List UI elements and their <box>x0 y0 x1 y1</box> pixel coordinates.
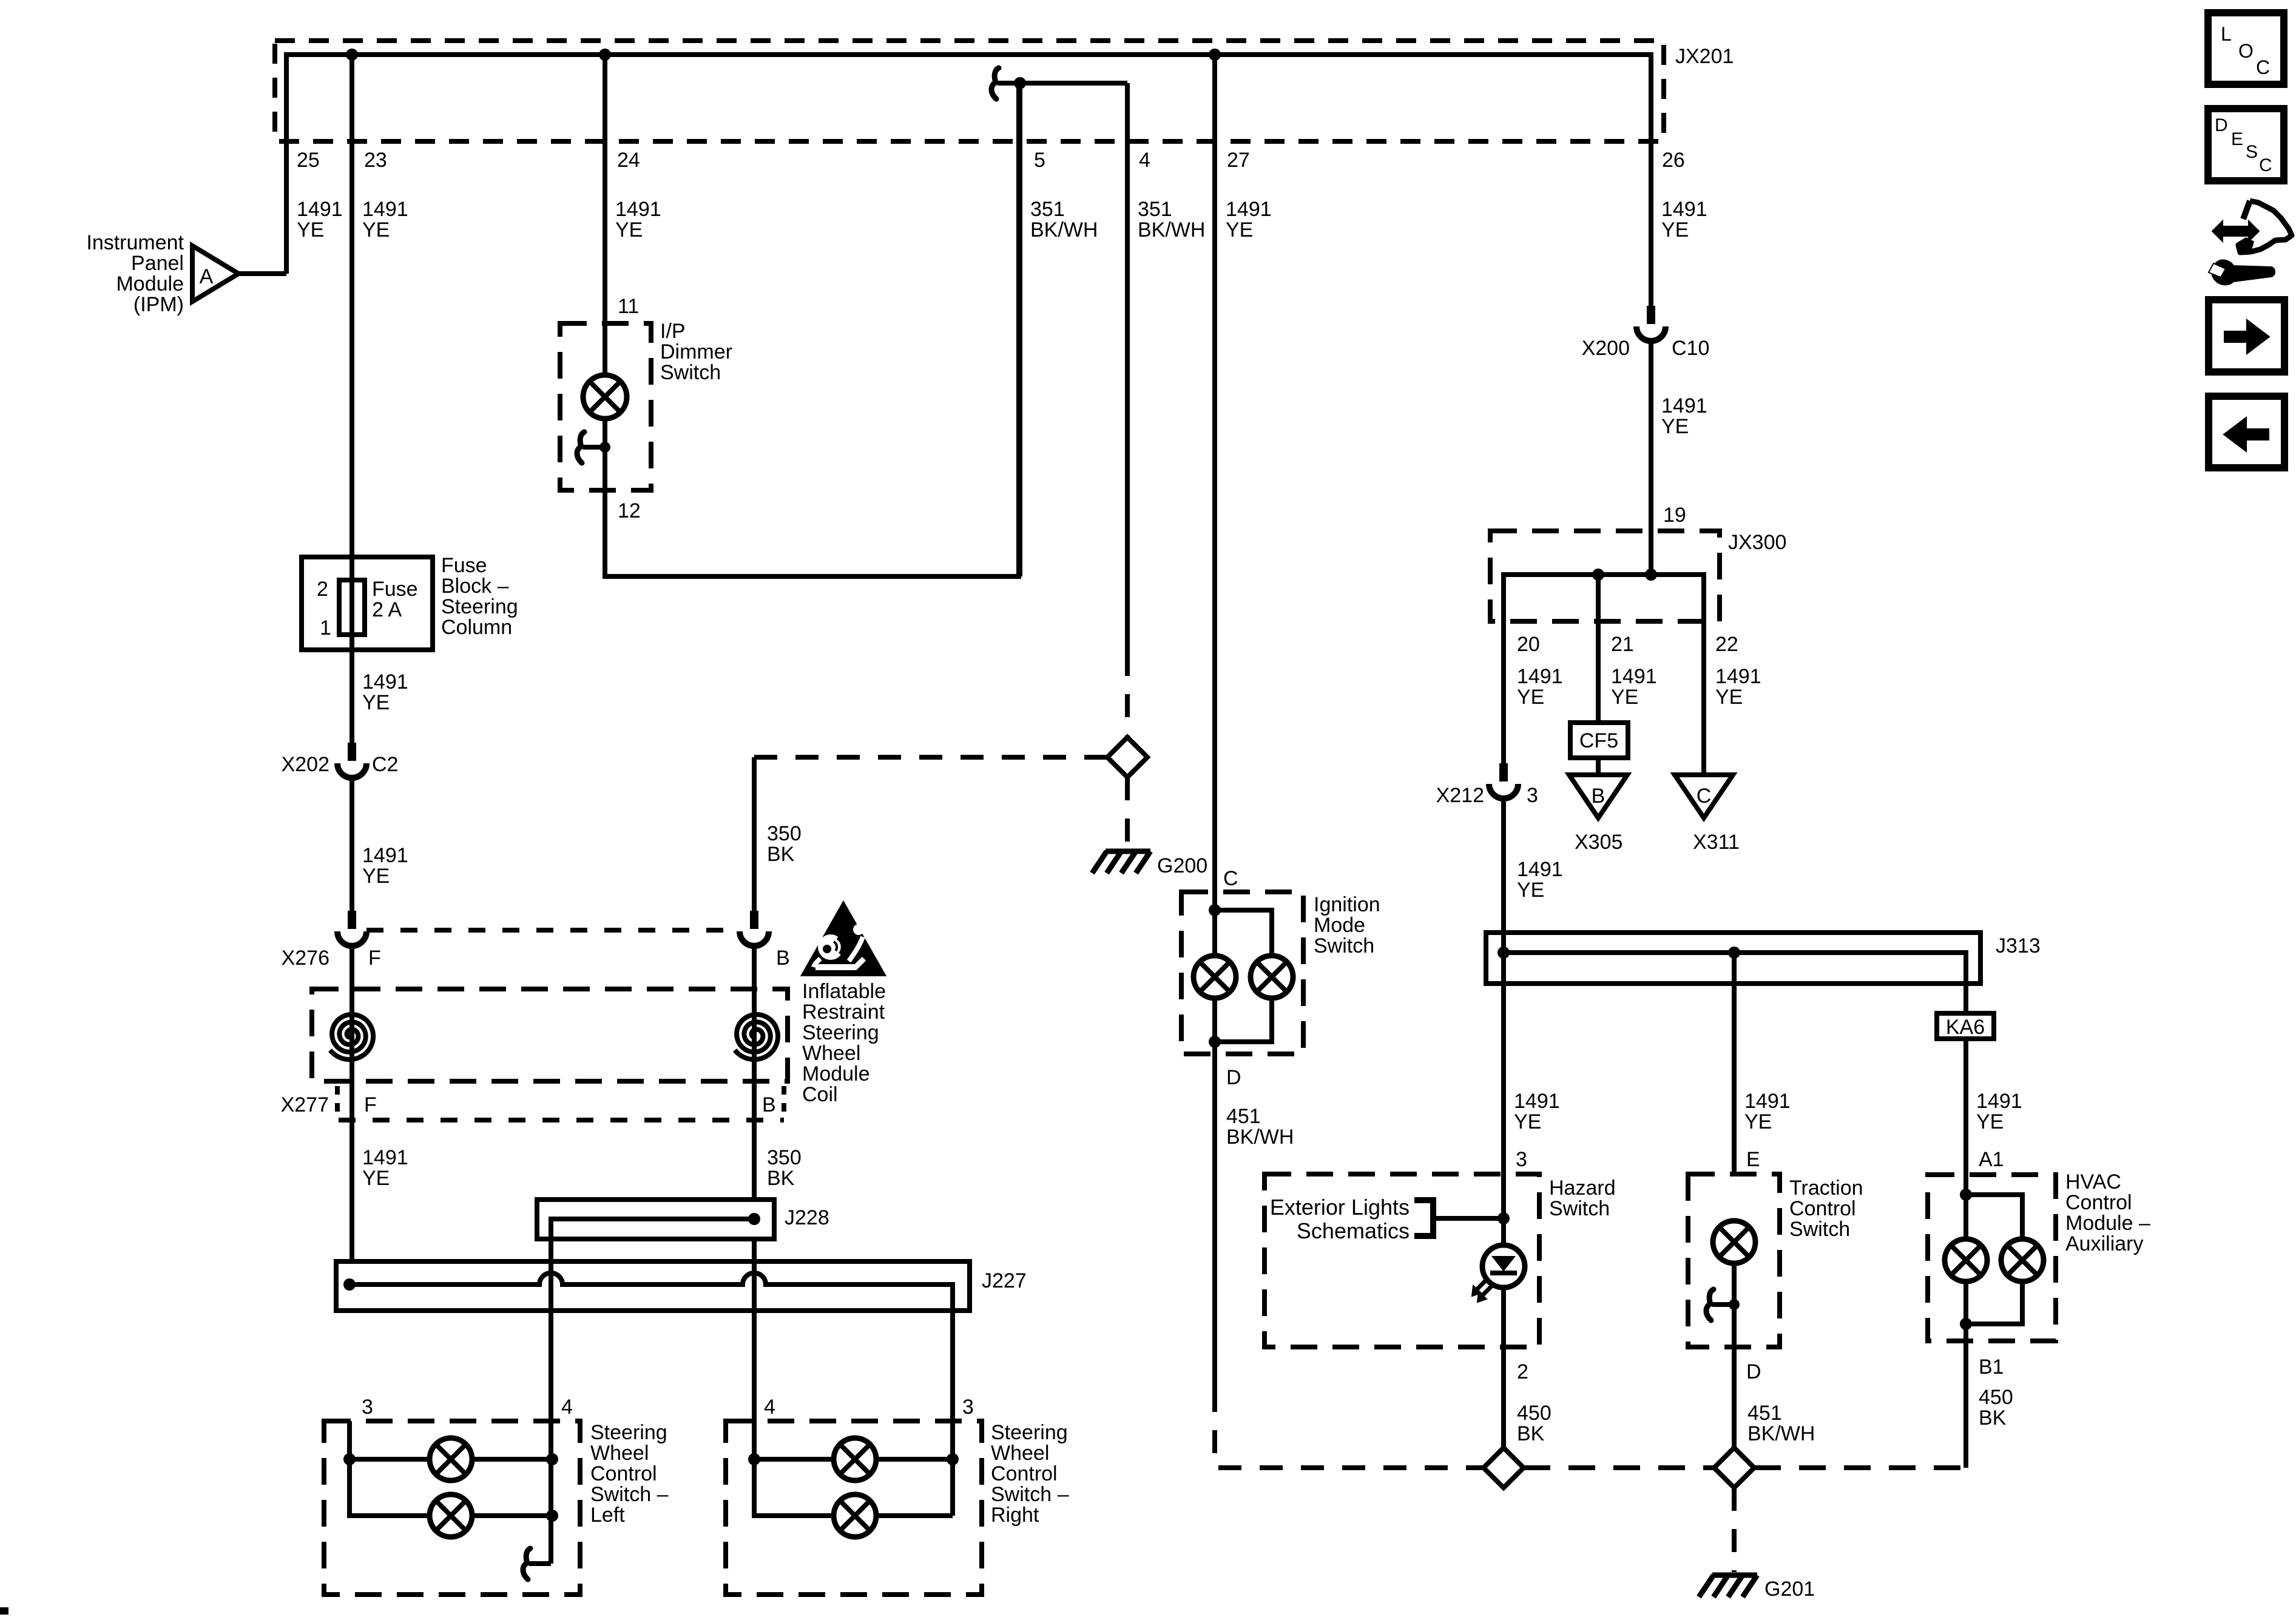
wire splice dashed to 350 BK <box>754 755 1107 760</box>
svg-text:Module: Module <box>802 1062 870 1085</box>
svg-text:1491: 1491 <box>1514 1090 1560 1113</box>
ground G200 <box>1106 849 1150 854</box>
svg-text:YE: YE <box>1517 879 1544 902</box>
svg-text:Coil: Coil <box>802 1083 838 1106</box>
lamp hvac 2 <box>2001 1239 2044 1281</box>
svg-text:X311: X311 <box>1693 831 1740 854</box>
svg-text:451: 451 <box>1747 1402 1782 1425</box>
wire right branch1 <box>754 1457 953 1462</box>
svg-text:Steering: Steering <box>590 1421 667 1444</box>
junction J228 <box>748 1213 760 1225</box>
lamp right switch 1 <box>834 1438 876 1480</box>
wire exterior lights to hazard <box>1433 1216 1504 1221</box>
svg-text:Column: Column <box>441 616 512 639</box>
icon next page arrow box <box>2209 300 2284 372</box>
svg-text:KA6: KA6 <box>1946 1016 1985 1039</box>
wire pin20 down to X212 <box>1501 621 1506 763</box>
component Ignition Mode Switch dashed box <box>1181 892 1303 1054</box>
switch hook left switch <box>529 1561 551 1566</box>
connector J313 strip <box>1486 933 1980 984</box>
svg-text:E: E <box>1746 1148 1760 1171</box>
connector J227 strip <box>336 1261 970 1311</box>
junction hazard <box>1497 1212 1510 1224</box>
svg-text:2: 2 <box>1517 1360 1528 1383</box>
fuse F1 2A <box>339 580 365 635</box>
junction J313 mid <box>1728 947 1740 959</box>
svg-text:D: D <box>1226 1066 1241 1089</box>
svg-text:Auxiliary: Auxiliary <box>2065 1232 2143 1255</box>
svg-text:J227: J227 <box>982 1269 1027 1292</box>
svg-text:1491: 1491 <box>1226 198 1272 221</box>
junction left switch c <box>546 1510 558 1522</box>
svg-text:451: 451 <box>1226 1105 1261 1128</box>
svg-text:X200: X200 <box>1582 337 1630 360</box>
svg-text:B: B <box>1592 785 1606 808</box>
svg-text:JX201: JX201 <box>1675 45 1734 68</box>
connector X277 right stub <box>782 1086 786 1120</box>
svg-text:5: 5 <box>1034 149 1045 172</box>
switch hook traction <box>1712 1302 1734 1307</box>
lamp hvac 1 <box>1945 1239 1987 1281</box>
svg-text:X277: X277 <box>281 1093 329 1116</box>
junction left switch b <box>546 1453 558 1465</box>
svg-text:1491: 1491 <box>1661 198 1707 221</box>
connector X305 triangle B <box>1569 775 1627 818</box>
connector X202 C2 <box>348 743 356 761</box>
svg-text:4: 4 <box>764 1396 775 1419</box>
svg-text:YE: YE <box>362 691 390 714</box>
splice diamond S1 <box>1107 737 1147 777</box>
svg-text:J228: J228 <box>785 1206 829 1229</box>
connector X277 left stub <box>335 1086 340 1120</box>
wire left branch1 <box>349 1457 552 1462</box>
splice diamond S3 <box>1714 1448 1754 1488</box>
svg-text:1491: 1491 <box>362 1146 408 1169</box>
wire traction lamp to switch <box>1732 1263 1737 1347</box>
svg-text:X202: X202 <box>282 753 329 776</box>
wire pin23 down to fuse block <box>349 55 354 557</box>
wire IPM to bus <box>238 271 286 276</box>
connector X276 B <box>750 911 758 929</box>
svg-text:S: S <box>2246 142 2258 162</box>
junction traction switch <box>1729 1299 1740 1310</box>
svg-text:Restraint: Restraint <box>802 1001 885 1024</box>
svg-text:20: 20 <box>1517 633 1540 656</box>
svg-text:C: C <box>1223 867 1238 890</box>
svg-text:BK: BK <box>1517 1422 1545 1445</box>
wire X202 to X276 <box>349 778 354 911</box>
fuse CF5 box <box>1570 723 1628 758</box>
svg-text:YE: YE <box>1611 686 1638 709</box>
wire lamp to switch <box>603 419 607 490</box>
svg-text:BK/WH: BK/WH <box>1747 1422 1815 1445</box>
icon prev page arrow box <box>2209 396 2284 468</box>
junction ignition bottom <box>1209 1036 1221 1048</box>
svg-text:D: D <box>1746 1360 1761 1383</box>
svg-text:L: L <box>2221 23 2232 45</box>
svg-text:Exterior Lights: Exterior Lights <box>1270 1195 1410 1220</box>
svg-text:2 A: 2 A <box>372 598 402 621</box>
svg-text:C: C <box>2256 56 2270 78</box>
svg-text:BK/WH: BK/WH <box>1030 218 1098 241</box>
connector X276 F <box>348 911 356 929</box>
wire X212 to J313 <box>1501 798 1506 933</box>
wire jumper J228 down <box>549 1239 553 1421</box>
junction ignition top <box>1209 904 1221 916</box>
wire pin4 down <box>1125 83 1130 653</box>
svg-text:(IPM): (IPM) <box>133 293 184 316</box>
svg-text:Instrument: Instrument <box>86 231 184 254</box>
svg-text:Ignition: Ignition <box>1314 893 1380 916</box>
icon wrench hand <box>2212 221 2259 241</box>
svg-text:350: 350 <box>767 822 802 845</box>
junction on bus at pin 27 <box>1209 49 1221 61</box>
stray mark bottom left <box>0 1607 8 1615</box>
svg-text:X276: X276 <box>282 947 329 970</box>
wire X200 to JX300 <box>1649 341 1653 575</box>
ground G201 <box>1712 1573 1757 1578</box>
junction J313 left <box>1497 947 1510 959</box>
svg-text:1491: 1491 <box>1744 1090 1791 1113</box>
svg-text:1491: 1491 <box>1517 665 1563 688</box>
wire pin4 dashed to splice <box>1125 653 1130 737</box>
svg-text:3: 3 <box>1516 1148 1527 1171</box>
wire KA6 to HVAC <box>1963 1039 1968 1175</box>
wire ignition branch <box>1215 910 1272 1042</box>
lamp left switch 1 <box>430 1438 472 1480</box>
svg-text:X212: X212 <box>1436 784 1484 807</box>
wire hazard through LED <box>1501 1174 1506 1347</box>
svg-text:351: 351 <box>1138 198 1172 221</box>
svg-text:Traction: Traction <box>1789 1176 1863 1200</box>
svg-text:F: F <box>364 1093 377 1116</box>
svg-text:350: 350 <box>767 1146 802 1169</box>
svg-text:YE: YE <box>1226 218 1253 241</box>
svg-text:A1: A1 <box>1979 1148 2004 1171</box>
wire J228 internal <box>551 1219 754 1239</box>
svg-text:1491: 1491 <box>297 198 343 221</box>
svg-text:BK: BK <box>1979 1406 2007 1430</box>
svg-text:Module –: Module – <box>2065 1212 2150 1235</box>
svg-text:BK/WH: BK/WH <box>1138 218 1205 241</box>
svg-text:26: 26 <box>1662 149 1685 172</box>
svg-text:X305: X305 <box>1575 831 1622 854</box>
svg-text:1491: 1491 <box>615 198 661 221</box>
svg-text:Dimmer: Dimmer <box>660 340 732 363</box>
module Fuse Block box <box>302 557 433 650</box>
svg-text:B: B <box>762 1093 776 1116</box>
svg-text:Control: Control <box>2065 1191 2132 1214</box>
svg-text:1491: 1491 <box>1611 665 1657 688</box>
component Steering Wheel Control Switch Left dashed box <box>324 1421 580 1595</box>
junction right switch b <box>947 1453 959 1465</box>
wire inside fuse <box>349 580 354 635</box>
svg-text:21: 21 <box>1611 633 1634 656</box>
svg-text:24: 24 <box>617 149 640 172</box>
svg-text:1491: 1491 <box>1661 394 1707 417</box>
svg-text:27: 27 <box>1227 149 1250 172</box>
svg-text:Fuse: Fuse <box>441 554 487 577</box>
wire F through coil <box>349 945 354 1261</box>
junction right switch a <box>748 1453 760 1465</box>
svg-text:Steering: Steering <box>802 1021 879 1044</box>
svg-text:Schematics: Schematics <box>1297 1218 1410 1243</box>
component Hazard Switch dashed box <box>1264 1174 1539 1347</box>
wire hazard feed <box>1501 933 1506 1174</box>
svg-text:Switch: Switch <box>1549 1197 1610 1220</box>
junction on bus at pin 23 <box>346 49 358 61</box>
svg-text:Left: Left <box>590 1504 625 1527</box>
lamp dimmer <box>583 375 627 419</box>
svg-text:YE: YE <box>1661 415 1689 438</box>
svg-text:Switch: Switch <box>660 361 721 384</box>
wire right switch pin4 down <box>754 1421 953 1516</box>
svg-text:D: D <box>2215 115 2228 135</box>
icon DESC box <box>2208 109 2284 181</box>
svg-text:Mode: Mode <box>1314 914 1365 937</box>
wire hvac main <box>1963 1175 1968 1341</box>
wire B down to right switch <box>752 1239 757 1421</box>
connector X276 line <box>366 928 740 933</box>
svg-text:C2: C2 <box>372 753 398 776</box>
connector X200 C10 <box>1647 306 1655 324</box>
svg-text:Control: Control <box>1789 1197 1856 1220</box>
icon LOC box <box>2208 13 2284 84</box>
svg-text:YE: YE <box>1661 218 1689 241</box>
fuse KA6 box <box>1937 1013 1994 1039</box>
svg-text:2: 2 <box>317 578 328 601</box>
connector X212 <box>1499 763 1508 781</box>
wire J313 internal <box>1504 953 1966 1013</box>
wire ignition dashed to splice line <box>1215 1389 1484 1468</box>
wire J227 internal <box>349 1273 953 1421</box>
module Inflatable Restraint Steering Wheel Module Coil dashed box <box>312 989 788 1081</box>
junction top switch to pin5 <box>1014 77 1026 89</box>
wire ignition D down <box>1212 1054 1217 1389</box>
wire switch bar top <box>998 81 1127 86</box>
lamp ignition 1 <box>1194 956 1236 998</box>
svg-text:B1: B1 <box>1979 1355 2004 1379</box>
wire left switch pin3 down <box>349 1421 552 1516</box>
svg-text:YE: YE <box>615 218 643 241</box>
component HVAC Control Module Auxiliary dashed box <box>1928 1175 2056 1341</box>
wire hvac down to splice line <box>1963 1341 1968 1468</box>
wire fuse to X202 <box>349 650 354 743</box>
svg-text:25: 25 <box>297 149 320 172</box>
svg-text:G201: G201 <box>1764 1578 1815 1601</box>
component I/P Dimmer Switch dashed box <box>560 323 651 490</box>
lamp left switch 2 <box>430 1494 472 1537</box>
lamp traction <box>1713 1221 1755 1263</box>
svg-text:Module: Module <box>116 272 184 295</box>
svg-text:O: O <box>2238 40 2254 62</box>
wire splice line right <box>1754 1465 1966 1470</box>
svg-text:HVAC: HVAC <box>2065 1170 2121 1193</box>
connector JX201 dashed box <box>275 41 1664 141</box>
svg-text:YE: YE <box>1744 1110 1772 1133</box>
component Traction Control Switch dashed box <box>1688 1174 1780 1347</box>
svg-text:Fuse: Fuse <box>372 578 418 601</box>
svg-text:YE: YE <box>362 218 390 241</box>
svg-text:YE: YE <box>1514 1110 1541 1133</box>
svg-text:C10: C10 <box>1672 337 1709 360</box>
junction JX300 pin19 <box>1645 569 1657 581</box>
svg-text:G200: G200 <box>1157 854 1207 877</box>
svg-text:BK: BK <box>767 1167 795 1190</box>
svg-text:C: C <box>1697 785 1712 808</box>
svg-text:12: 12 <box>618 499 641 522</box>
svg-text:450: 450 <box>1979 1386 2013 1409</box>
svg-text:B: B <box>776 947 790 970</box>
LED hazard indicator <box>1482 1245 1525 1288</box>
connector X277 line <box>339 1118 784 1122</box>
wire right switch pin3 down <box>950 1421 955 1516</box>
svg-text:19: 19 <box>1663 504 1686 527</box>
connector J228 strip <box>537 1200 774 1239</box>
svg-text:Switch –: Switch – <box>991 1483 1069 1506</box>
svg-text:I/P: I/P <box>660 320 686 343</box>
svg-text:E: E <box>2231 129 2243 149</box>
wire splice to G201 dashed <box>1732 1488 1737 1572</box>
svg-text:351: 351 <box>1030 198 1065 221</box>
wire JX300 bus <box>1504 575 1704 621</box>
wire CF5 to X305 <box>1596 758 1601 775</box>
wire ignition main <box>1212 892 1217 1054</box>
junction J227 <box>343 1278 356 1291</box>
svg-text:Wheel: Wheel <box>590 1442 649 1465</box>
junction left switch a <box>343 1453 356 1465</box>
junction JX300 pin21 <box>1592 569 1604 581</box>
wire left switch pin4 down <box>549 1421 553 1564</box>
svg-text:YE: YE <box>1517 686 1544 709</box>
wire pin5 down <box>1018 83 1022 576</box>
svg-text:1491: 1491 <box>362 670 408 694</box>
svg-text:Wheel: Wheel <box>802 1042 860 1065</box>
svg-text:JX300: JX300 <box>1728 531 1786 554</box>
wire pin24 down to dimmer <box>603 55 607 376</box>
svg-text:4: 4 <box>561 1396 573 1419</box>
svg-text:YE: YE <box>362 865 390 888</box>
svg-text:Block –: Block – <box>441 575 509 598</box>
switch hook top <box>991 68 999 99</box>
svg-text:Inflatable: Inflatable <box>802 980 886 1003</box>
svg-text:BK: BK <box>767 843 795 866</box>
wire pin22 down <box>1701 621 1706 775</box>
connector JX300 dashed box <box>1490 531 1720 621</box>
svg-text:1491: 1491 <box>1517 858 1563 881</box>
svg-text:23: 23 <box>364 149 387 172</box>
svg-text:1491: 1491 <box>362 844 408 867</box>
junction on bus at pin 24 <box>599 49 611 61</box>
svg-text:3: 3 <box>362 1396 373 1419</box>
wire top bus 1491 YE <box>286 55 1651 306</box>
svg-text:1491: 1491 <box>1715 665 1761 688</box>
svg-text:F: F <box>368 947 381 970</box>
svg-text:Hazard: Hazard <box>1549 1176 1616 1200</box>
svg-text:YE: YE <box>1715 686 1743 709</box>
wire splice line left <box>1524 1465 1714 1470</box>
wire through fuse block <box>349 557 354 650</box>
svg-text:450: 450 <box>1517 1402 1551 1425</box>
svg-text:Right: Right <box>991 1504 1039 1527</box>
wire hvac branch <box>1966 1195 2022 1324</box>
wire dimmer down and right to pin5 wire <box>605 86 1019 576</box>
svg-text:1491: 1491 <box>362 198 408 221</box>
svg-text:Switch: Switch <box>1789 1218 1850 1241</box>
svg-text:J313: J313 <box>1996 934 2041 957</box>
svg-text:Switch –: Switch – <box>590 1483 669 1506</box>
junction dimmer switch <box>599 442 610 453</box>
warning airbag triangle <box>803 904 883 974</box>
svg-text:YE: YE <box>362 1167 390 1190</box>
svg-text:BK/WH: BK/WH <box>1226 1126 1294 1149</box>
svg-text:C: C <box>2259 155 2272 175</box>
svg-text:YE: YE <box>1976 1110 2004 1133</box>
lamp ignition 2 <box>1251 956 1293 998</box>
svg-text:3: 3 <box>962 1396 974 1419</box>
coil spiral F <box>330 1014 373 1059</box>
component Steering Wheel Control Switch Right dashed box <box>726 1421 982 1595</box>
lamp right switch 2 <box>834 1494 876 1537</box>
svg-text:Control: Control <box>991 1462 1058 1485</box>
wire B through coil <box>752 945 757 1200</box>
svg-text:1: 1 <box>320 616 331 640</box>
svg-text:Steering: Steering <box>441 595 518 618</box>
svg-text:YE: YE <box>297 218 324 241</box>
svg-text:A: A <box>200 265 214 288</box>
svg-text:Switch: Switch <box>1314 934 1374 957</box>
svg-text:11: 11 <box>618 295 639 318</box>
wire hazard to splice <box>1501 1347 1506 1448</box>
wire traction feed <box>1732 953 1737 1174</box>
wire pin21 down <box>1596 575 1601 723</box>
wire splice to G200 dashed <box>1125 777 1130 846</box>
svg-text:Wheel: Wheel <box>991 1442 1049 1465</box>
wire pin27 down to ignition <box>1212 55 1217 892</box>
svg-text:3: 3 <box>1527 784 1538 807</box>
connector X311 triangle C <box>1675 775 1733 818</box>
svg-text:Steering: Steering <box>991 1421 1068 1444</box>
svg-text:CF5: CF5 <box>1579 729 1618 752</box>
svg-text:22: 22 <box>1715 633 1738 656</box>
wire traction to splice <box>1732 1347 1737 1448</box>
switch hook dimmer <box>583 445 605 450</box>
module IPM triangle connector A <box>192 246 238 302</box>
junction hvac top <box>1960 1189 1972 1201</box>
svg-text:1491: 1491 <box>1976 1090 2022 1113</box>
coil spiral B <box>735 1014 778 1059</box>
svg-text:Control: Control <box>590 1462 657 1485</box>
junction hvac bottom <box>1960 1318 1972 1330</box>
svg-text:4: 4 <box>1139 149 1150 172</box>
splice diamond S2 <box>1484 1448 1524 1488</box>
bracket exterior lights <box>1414 1200 1433 1236</box>
wire 350 BK down to X276 B <box>752 757 757 911</box>
svg-text:Panel: Panel <box>131 252 184 275</box>
